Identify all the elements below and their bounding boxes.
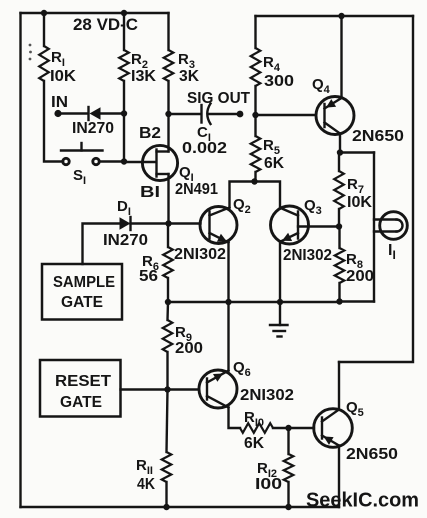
wire: R11 upper lead [167,390,168,453]
diode 1N270 (input, pointing left) [90,107,101,119]
svg-text:6K: 6K [244,435,264,452]
node: R9/R11/reset junction [164,386,170,392]
wire: R7 upper lead [338,153,340,172]
svg-text:I0K: I0K [347,194,372,211]
wire: R7 lower lead [338,209,340,227]
svg-text:2N650: 2N650 [346,446,398,463]
svg-text:2NI302: 2NI302 [240,387,294,404]
node: R6 bus junction [165,299,171,305]
transistor Q6 2N1302 (NPN, emitter up) [199,370,237,408]
node: Q4 collector / R7 junction [337,149,343,155]
svg-text:B2: B2 [139,125,161,142]
wire: Q5 emitter to bottom rail [338,446,340,508]
wire: Q2 base node down to R6 [167,224,169,248]
wire: R5 upper lead [254,115,256,136]
wire: Q4 collector down [339,134,341,153]
svg-text:I3K: I3K [131,68,156,85]
wire: top-right supply rail [256,15,414,17]
wire: Q6 collector down to R10 [229,408,241,429]
node: R4/R5/Q4-base junction [252,112,258,118]
wire: IN to diode [58,112,88,114]
svg-text:2N650: 2N650 [352,128,404,145]
wire: R2 lower lead [123,81,125,162]
node: Q4 emitter rail junction [338,13,344,19]
wire: Q2 emitter column to Q6 emitter [227,302,229,371]
wire: collector node to meter branch [340,151,374,153]
resistor R7 [334,171,344,209]
transistor Q3 2N1302 (NPN, mirrored) [271,206,309,244]
wire: R5 lower lead [254,172,256,182]
svg-text:IN: IN [51,94,68,111]
transistor Q4 2N650 (PNP) [316,97,354,135]
transistor Q5 2N650 (PNP) [314,409,353,448]
svg-text:3K: 3K [179,68,199,85]
svg-text:2N491: 2N491 [175,181,218,198]
wire: meter return to R8 node [340,300,375,302]
svg-text:SIG OUT: SIG OUT [187,90,250,107]
node: Q3 emitter bus junction [277,299,283,305]
resistor R11 [162,452,172,482]
wire: Q4 base lead [256,114,316,116]
wire: sample gate to D1 [83,224,120,265]
resistor R6 [163,247,173,278]
svg-text:200: 200 [346,268,374,285]
wire: R6 to ground bus [167,278,169,302]
svg-text:56: 56 [139,268,158,285]
resistor R1 [39,46,49,81]
svg-text:SAMPLE: SAMPLE [53,274,115,291]
svg-text:2NI302: 2NI302 [174,246,226,263]
resistor R4 [251,48,261,86]
wire: Q1 emitter lead [124,161,156,163]
switch S1 contact left [63,158,69,164]
wire: R1 upper lead [43,13,45,46]
capacitor C1 [200,105,202,123]
node: R12 bottom rail junction [285,504,291,510]
svg-text:BI: BI [140,184,160,201]
wire: R9 upper lead [166,302,169,320]
wire: Q3 collector to R5 node [255,182,281,208]
svg-text:2NI302: 2NI302 [283,247,332,264]
wire: Q2 emitter down to bus [227,243,229,303]
svg-text:GATE: GATE [61,294,103,311]
wire: Q2 collector to R5 node [230,182,255,208]
wire: R12 lower lead [287,482,289,507]
switch S1 contact right [93,158,99,164]
switch S1 bar and stem [61,149,103,151]
wire: top-left supply rail [21,12,169,14]
resistor R2 [119,50,129,81]
svg-text:300: 300 [264,73,294,90]
resistor R8 [335,248,345,283]
node: R7/R8/Q3-base junction [336,223,342,229]
wire: right border [339,16,413,362]
svg-text:RESET: RESET [55,373,111,390]
node: diode/R2 junction [121,110,127,116]
meter I1 [374,212,407,240]
svg-text:0.002: 0.002 [182,140,227,157]
wire: Q3 emitter down to bus [279,242,281,303]
node: R1 top junction [41,10,47,16]
resistor R5 [251,136,261,172]
node: B1/D1/Q2-base junction [165,220,171,226]
wire: R9 lower lead to reset node [166,352,168,390]
svg-text:IN270: IN270 [103,232,148,249]
svg-text:I0K: I0K [50,68,76,85]
wire: R11 lower lead [165,482,167,507]
resistor R12 [284,454,294,482]
wire: R8 upper lead [338,227,340,249]
wire: meter branch down [373,153,375,302]
node: R11 bottom rail junction [163,504,169,510]
wire: diode to R2 column [100,112,124,114]
wire: Q3 base lead to R7 node [298,225,339,227]
wire: S1 to emitter node [100,160,125,162]
wire: reset gate to Q6 base [121,388,199,390]
resistor R10 [240,423,273,433]
scan specks [29,44,32,47]
node: R2 top junction [121,10,127,16]
wire: R12 upper lead [287,428,289,454]
node: R8 bottom / meter return junction [336,298,342,304]
transistor Q2 2N1302 (NPN) [200,207,237,244]
wire: bottom rail [21,506,340,508]
wire: R2 upper lead [123,13,125,50]
wire: R10 to Q5 base node [273,427,314,429]
ground [270,302,288,337]
svg-text:6K: 6K [264,155,284,172]
node: R2/S1/emitter junction [121,158,127,164]
svg-text:GATE: GATE [60,394,102,411]
wire: D1 to Q2 base node [131,222,169,224]
wire: C1 to SIG OUT terminal [209,113,240,115]
svg-text:SeekIC.com: SeekIC.com [306,490,419,512]
wire: R8 lower lead [338,283,340,302]
resistor R3 [164,50,174,81]
node: SIG OUT terminal [237,111,244,118]
resistor R9 [163,320,173,352]
wire: R4 upper lead [254,16,256,48]
wire: right border down to Q5 collector [338,362,340,410]
wire: Q4 emitter to top rail [340,16,342,98]
svg-text:I00: I00 [255,476,282,493]
wire: R4 lower lead [254,86,256,115]
transistor Q1 unijunction 2N491 [142,114,177,224]
node: Q2 emitter bus junction [225,299,231,305]
wire: R3 lower lead to C1 node [167,81,169,114]
wire: Q2 base lead [169,222,201,224]
wire: C1 left lead [169,113,202,115]
node: IN input terminal [54,110,61,117]
svg-text:28 VD-C: 28 VD-C [73,15,138,34]
wire: left border [19,13,21,507]
svg-text:4K: 4K [137,476,155,493]
wire: R3 upper lead [167,13,169,50]
box: SAMPLE GATE [42,264,122,320]
svg-text:IN270: IN270 [72,120,114,137]
node: R5/Q2/Q3 collector junction [251,178,257,184]
diode D1 1N270 (pointing right) [120,217,131,229]
box: RESET GATE [40,360,121,417]
node: R3/B2/C1 junction [165,111,171,117]
wire: ground bus [168,301,340,303]
svg-text:200: 200 [175,340,203,357]
node: R10/R12/Q5-base junction [285,425,291,431]
wire: R1 lower lead to switch [44,81,63,162]
